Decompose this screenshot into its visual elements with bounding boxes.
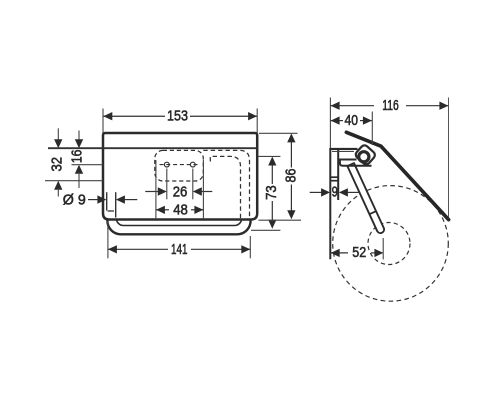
bracket housing step [340, 160, 372, 166]
rod joint line [370, 211, 377, 214]
dim 153 line [103, 115, 165, 117]
dim 116 ext right [448, 98, 450, 218]
dim 73 ext bottom [251, 229, 280, 231]
svg-text:26: 26 [173, 184, 188, 200]
dim 40 line [331, 120, 343, 122]
dim 86 arrows [287, 133, 295, 142]
dim 40 ext right [371, 112, 373, 146]
dim 32 tail top [57, 128, 59, 141]
dim dia9 arrow right [116, 195, 125, 203]
dim dia9 arrow left [97, 195, 106, 203]
dim 32 arrow bottom [54, 181, 62, 190]
dim 141 ext left [107, 221, 109, 258]
screw hole right [190, 162, 195, 167]
bracket housing top inner [332, 150, 354, 152]
dim 48 ext right [202, 160, 204, 219]
dim 48 arrow left [156, 206, 165, 214]
dim 16 arrow top [75, 139, 83, 148]
screw hole left [164, 162, 169, 167]
dim 48 arrow right [194, 206, 203, 214]
dim 73 ext top [259, 155, 281, 157]
dim 26 arrow right [193, 187, 202, 195]
dim 141 ext right [249, 236, 251, 258]
bracket foot top [330, 176, 339, 178]
dim 153 arrows [103, 112, 112, 120]
dim 40 arrows [331, 116, 340, 124]
paper roll outline (dashed) [333, 186, 449, 302]
svg-text:73: 73 [264, 185, 280, 200]
bracket foot bottom [330, 180, 339, 182]
dim 9 arrow left [321, 188, 330, 196]
dim 52 line [331, 252, 348, 254]
dim 73 arrows [268, 157, 276, 166]
holder bar inner (front view) [116, 200, 241, 226]
dim 48 line [156, 209, 169, 211]
dim 9 tail left [310, 191, 322, 193]
dim 52 tick [382, 238, 384, 259]
screw centerline [160, 164, 201, 166]
dim 9 tail right [348, 191, 360, 193]
svg-text:153: 153 [167, 109, 188, 125]
slot edge right [115, 192, 117, 217]
slot edge left [106, 192, 108, 210]
roll core outline (dashed) [368, 223, 410, 265]
svg-text:86: 86 [283, 168, 299, 182]
hinge knuckle [354, 144, 376, 166]
dim 153 ext left [102, 109, 104, 133]
slot bottom [108, 210, 114, 212]
svg-text:141: 141 [171, 242, 188, 258]
dim dia9 tail right [125, 199, 138, 201]
mounting plate hidden outline [155, 150, 204, 181]
dim 16 tail bottom [78, 172, 80, 188]
dim 16 tail top [78, 131, 80, 142]
dim 9 arrow right [339, 188, 348, 196]
svg-text:32: 32 [50, 157, 66, 172]
svg-text:40: 40 [345, 113, 359, 129]
body front view [103, 133, 257, 220]
dim 116 line [331, 105, 374, 107]
dim 26 ext right [192, 169, 194, 200]
dim 48 ext left [155, 160, 157, 219]
dim 86 ext bottom [259, 219, 302, 221]
extension line screw axis [72, 164, 104, 166]
cover flap (side view) [346, 132, 448, 219]
dim 32 arrow top [54, 139, 62, 148]
svg-text:16: 16 [70, 150, 86, 164]
wall plate edge [329, 149, 331, 260]
extension line plate bottom [45, 180, 103, 182]
cover edge line [48, 147, 257, 149]
dim dia9 leader [88, 199, 98, 201]
dim 16 arrow bottom [75, 165, 83, 174]
dim 26 arrow left [158, 187, 167, 195]
svg-text:52: 52 [352, 245, 366, 261]
dim 26 ext left [166, 169, 168, 200]
hidden outline inner right [210, 156, 240, 219]
svg-text:48: 48 [173, 202, 188, 218]
dim 116 arrows [331, 102, 340, 110]
dim 26 tail right [201, 191, 212, 193]
dim 153 ext right [256, 109, 258, 133]
svg-text:116: 116 [382, 98, 399, 114]
dim 32 tail bottom [57, 188, 59, 196]
dim 116/40 ext left [329, 98, 331, 149]
holder bar outer (front view) [107, 196, 250, 234]
dim 141 line [108, 248, 168, 250]
dim 141 arrows [108, 245, 117, 253]
svg-text:Ø 9: Ø 9 [63, 192, 86, 208]
hinge pin [359, 152, 369, 162]
bracket front edge [337, 149, 339, 201]
dim 86 line [290, 142, 292, 168]
dim 73 line [271, 165, 273, 184]
holder rod [347, 163, 384, 233]
svg-text:9: 9 [332, 185, 338, 201]
dim 52 arrows [331, 249, 340, 257]
dim 26 tail left [145, 191, 158, 193]
bracket housing top [329, 148, 357, 150]
hidden outline outer right [203, 150, 249, 219]
dim 86 ext top [259, 132, 298, 134]
